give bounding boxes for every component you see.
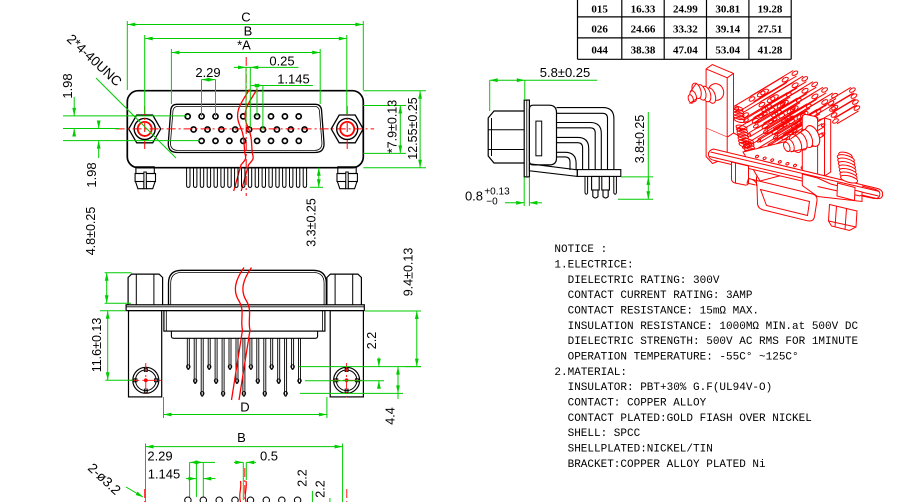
svg-text:9.4±0.13: 9.4±0.13 [402,248,416,297]
svg-text:BRACKET:COPPER ALLOY PLATED Ni: BRACKET:COPPER ALLOY PLATED Ni [554,459,766,471]
svg-text:2.2: 2.2 [314,480,328,497]
svg-text:INSULATOR: PBT+30% G.F(UL94V-O: INSULATOR: PBT+30% G.F(UL94V-O) [554,382,772,394]
svg-text:38.38: 38.38 [631,44,656,56]
footprint pin holes [185,497,301,502]
dimension 12.55±0.25 [363,91,426,168]
svg-text:−0: −0 [486,197,498,208]
hole callout 2-ø3.2 [85,460,144,499]
dimension 2.2 footprint b [314,480,330,502]
svg-text:1.145: 1.145 [148,467,181,482]
svg-text:*A: *A [237,38,251,53]
svg-text:2.29: 2.29 [195,65,220,80]
footprint break curves [240,481,247,502]
front view solder pins comb [187,168,307,188]
top view solder pins staggered [187,338,302,396]
dimension 9.4±0.13 [365,248,421,367]
side view bracket [529,164,620,177]
svg-text:0.5: 0.5 [260,449,278,464]
dimension C [127,10,363,91]
side view molded body [529,105,556,165]
front view nut L red center cross [144,106,146,152]
front view nut R red center cross [346,106,348,152]
notice text block [554,244,858,471]
svg-text:044: 044 [591,44,608,56]
svg-text:16.33: 16.33 [631,3,656,15]
svg-text:CONTACT: COPPER ALLOY: CONTACT: COPPER ALLOY [554,398,706,410]
top view jack nut L [128,274,163,305]
dimension 5.8±0.25 [490,65,598,111]
dimension 2.2 footprint a [296,469,313,502]
front view D-shaped insulator insert [168,104,324,152]
side view pin tails and board locks [585,177,616,199]
svg-text:2.2: 2.2 [365,332,379,349]
dimension 1.98 upper [60,73,187,136]
front view board lock foot L [135,167,155,189]
dimension *7.9±0.13 [363,100,406,154]
svg-text:015: 015 [591,3,608,15]
svg-text:CONTACT CURRENT RATING: 3AMP: CONTACT CURRENT RATING: 3AMP [554,290,752,302]
top view break line 1 [232,268,245,401]
svg-text:1.98: 1.98 [60,73,75,98]
dimension 0.8 +0.13/-0 [465,177,542,208]
front view jack screw nut L [129,115,161,143]
top view bracket column R [330,311,363,398]
svg-text:CONTACT RESISTANCE: 15mΩ MAX.: CONTACT RESISTANCE: 15mΩ MAX. [554,306,759,318]
dimension B [145,24,347,115]
svg-text:1.145: 1.145 [277,72,310,87]
svg-text:DIELECTRIC RATING: 300V: DIELECTRIC RATING: 300V [554,275,719,287]
front view contact holes 3 rows [185,114,307,144]
svg-text:B: B [237,430,246,445]
svg-text:*7.9±0.13: *7.9±0.13 [386,100,400,153]
front view vertical centerline [245,57,247,196]
dimension 3.8±0.25 [618,112,653,199]
svg-text:0.25: 0.25 [269,54,294,69]
svg-text:12.55±0.25: 12.55±0.25 [406,97,420,160]
side view bent pins [557,108,614,170]
top view break line 2 [239,268,252,401]
dimension 1.145 [251,72,313,130]
dimension *A [171,38,320,105]
svg-text:026: 026 [591,23,608,35]
svg-text:27.51: 27.51 [758,23,783,35]
svg-text:24.99: 24.99 [673,3,698,15]
svg-text:OPERATION TEMPERATURE: -55C° ~: OPERATION TEMPERATURE: -55C° ~125C° [554,352,798,364]
svg-text:30.81: 30.81 [715,3,740,15]
svg-text:0.8: 0.8 [465,189,483,204]
svg-text:SHELLPLATED:NICKEL/TIN: SHELLPLATED:NICKEL/TIN [554,444,712,456]
svg-text:11.6±0.13: 11.6±0.13 [90,318,104,373]
svg-text:C: C [241,10,250,25]
dimension 11.6±0.13 [90,311,133,381]
svg-text:INSULATION RESISTANCE: 1000MΩ: INSULATION RESISTANCE: 1000MΩ MIN.at 500… [554,321,858,333]
dimension 2.29 [195,65,220,116]
svg-text:5.8±0.25: 5.8±0.25 [540,65,591,80]
dimension 0.5 footprint [234,449,278,501]
front view break line 1 [234,90,250,192]
svg-text:24.66: 24.66 [631,23,656,35]
svg-text:4.4: 4.4 [384,407,398,424]
dimension 0.25 [234,54,299,128]
svg-text:1.ELECTRICE:: 1.ELECTRICE: [554,260,633,272]
footprint hole centers red [145,489,347,502]
dimension 2.29 footprint [147,449,215,498]
footprint centerline [244,468,246,502]
dimension 1.98 lower [63,121,200,188]
svg-text:1.98: 1.98 [84,162,99,187]
svg-text:19.28: 19.28 [758,3,783,15]
svg-text:3.8±0.25: 3.8±0.25 [633,115,647,164]
top view shell hood [169,270,327,305]
top view body block [164,311,325,339]
svg-text:3.3±0.25: 3.3±0.25 [305,198,319,247]
svg-text:41.28: 41.28 [758,44,783,56]
svg-text:47.04: 47.04 [673,44,698,56]
side view jack screw hex head [488,111,524,163]
svg-text:DIELECTRIC STRENGTH: 500V AC R: DIELECTRIC STRENGTH: 500V AC RMS FOR 1MI… [554,336,858,348]
3D isometric wireframe view [687,65,883,231]
side view flange plate [524,100,529,177]
svg-text:NOTICE :: NOTICE : [554,244,607,256]
svg-text:4.8±0.25: 4.8±0.25 [84,207,98,256]
front view horizontal centerline [116,128,375,130]
svg-text:33.32: 33.32 [673,23,698,35]
top view bracket column L [129,311,162,398]
svg-text:B: B [244,24,253,39]
front view jack screw nut R [331,115,363,143]
svg-text:2.MATERIAL:: 2.MATERIAL: [554,367,627,379]
svg-text:2.29: 2.29 [147,449,172,464]
svg-text:39.14: 39.14 [715,23,740,35]
dimension 2.2 pins [299,332,421,389]
svg-text:D: D [240,400,249,415]
dimension 4.4 [300,367,403,425]
svg-text:SHELL: SPCC: SHELL: SPCC [554,428,640,440]
svg-text:53.04: 53.04 [715,44,740,56]
dimension 4.8±0.25 [84,207,132,304]
dimension table [578,0,792,59]
svg-text:2.2: 2.2 [296,469,310,486]
dimension 1.145 footprint [148,462,216,497]
dimension 3.3±0.25 [305,168,324,247]
front view board lock foot R [337,167,357,189]
thread callout 2*4-40UNC [64,31,176,158]
front view connector shell body [127,91,363,168]
front view break line 2 [241,90,257,192]
top view jack nut R [327,274,362,305]
top view flange plate [126,305,364,311]
dimension D [164,397,327,418]
dimension B footprint [146,430,343,502]
svg-text:CONTACT PLATED:GOLD FIASH OVER: CONTACT PLATED:GOLD FIASH OVER NICKEL [554,413,811,425]
